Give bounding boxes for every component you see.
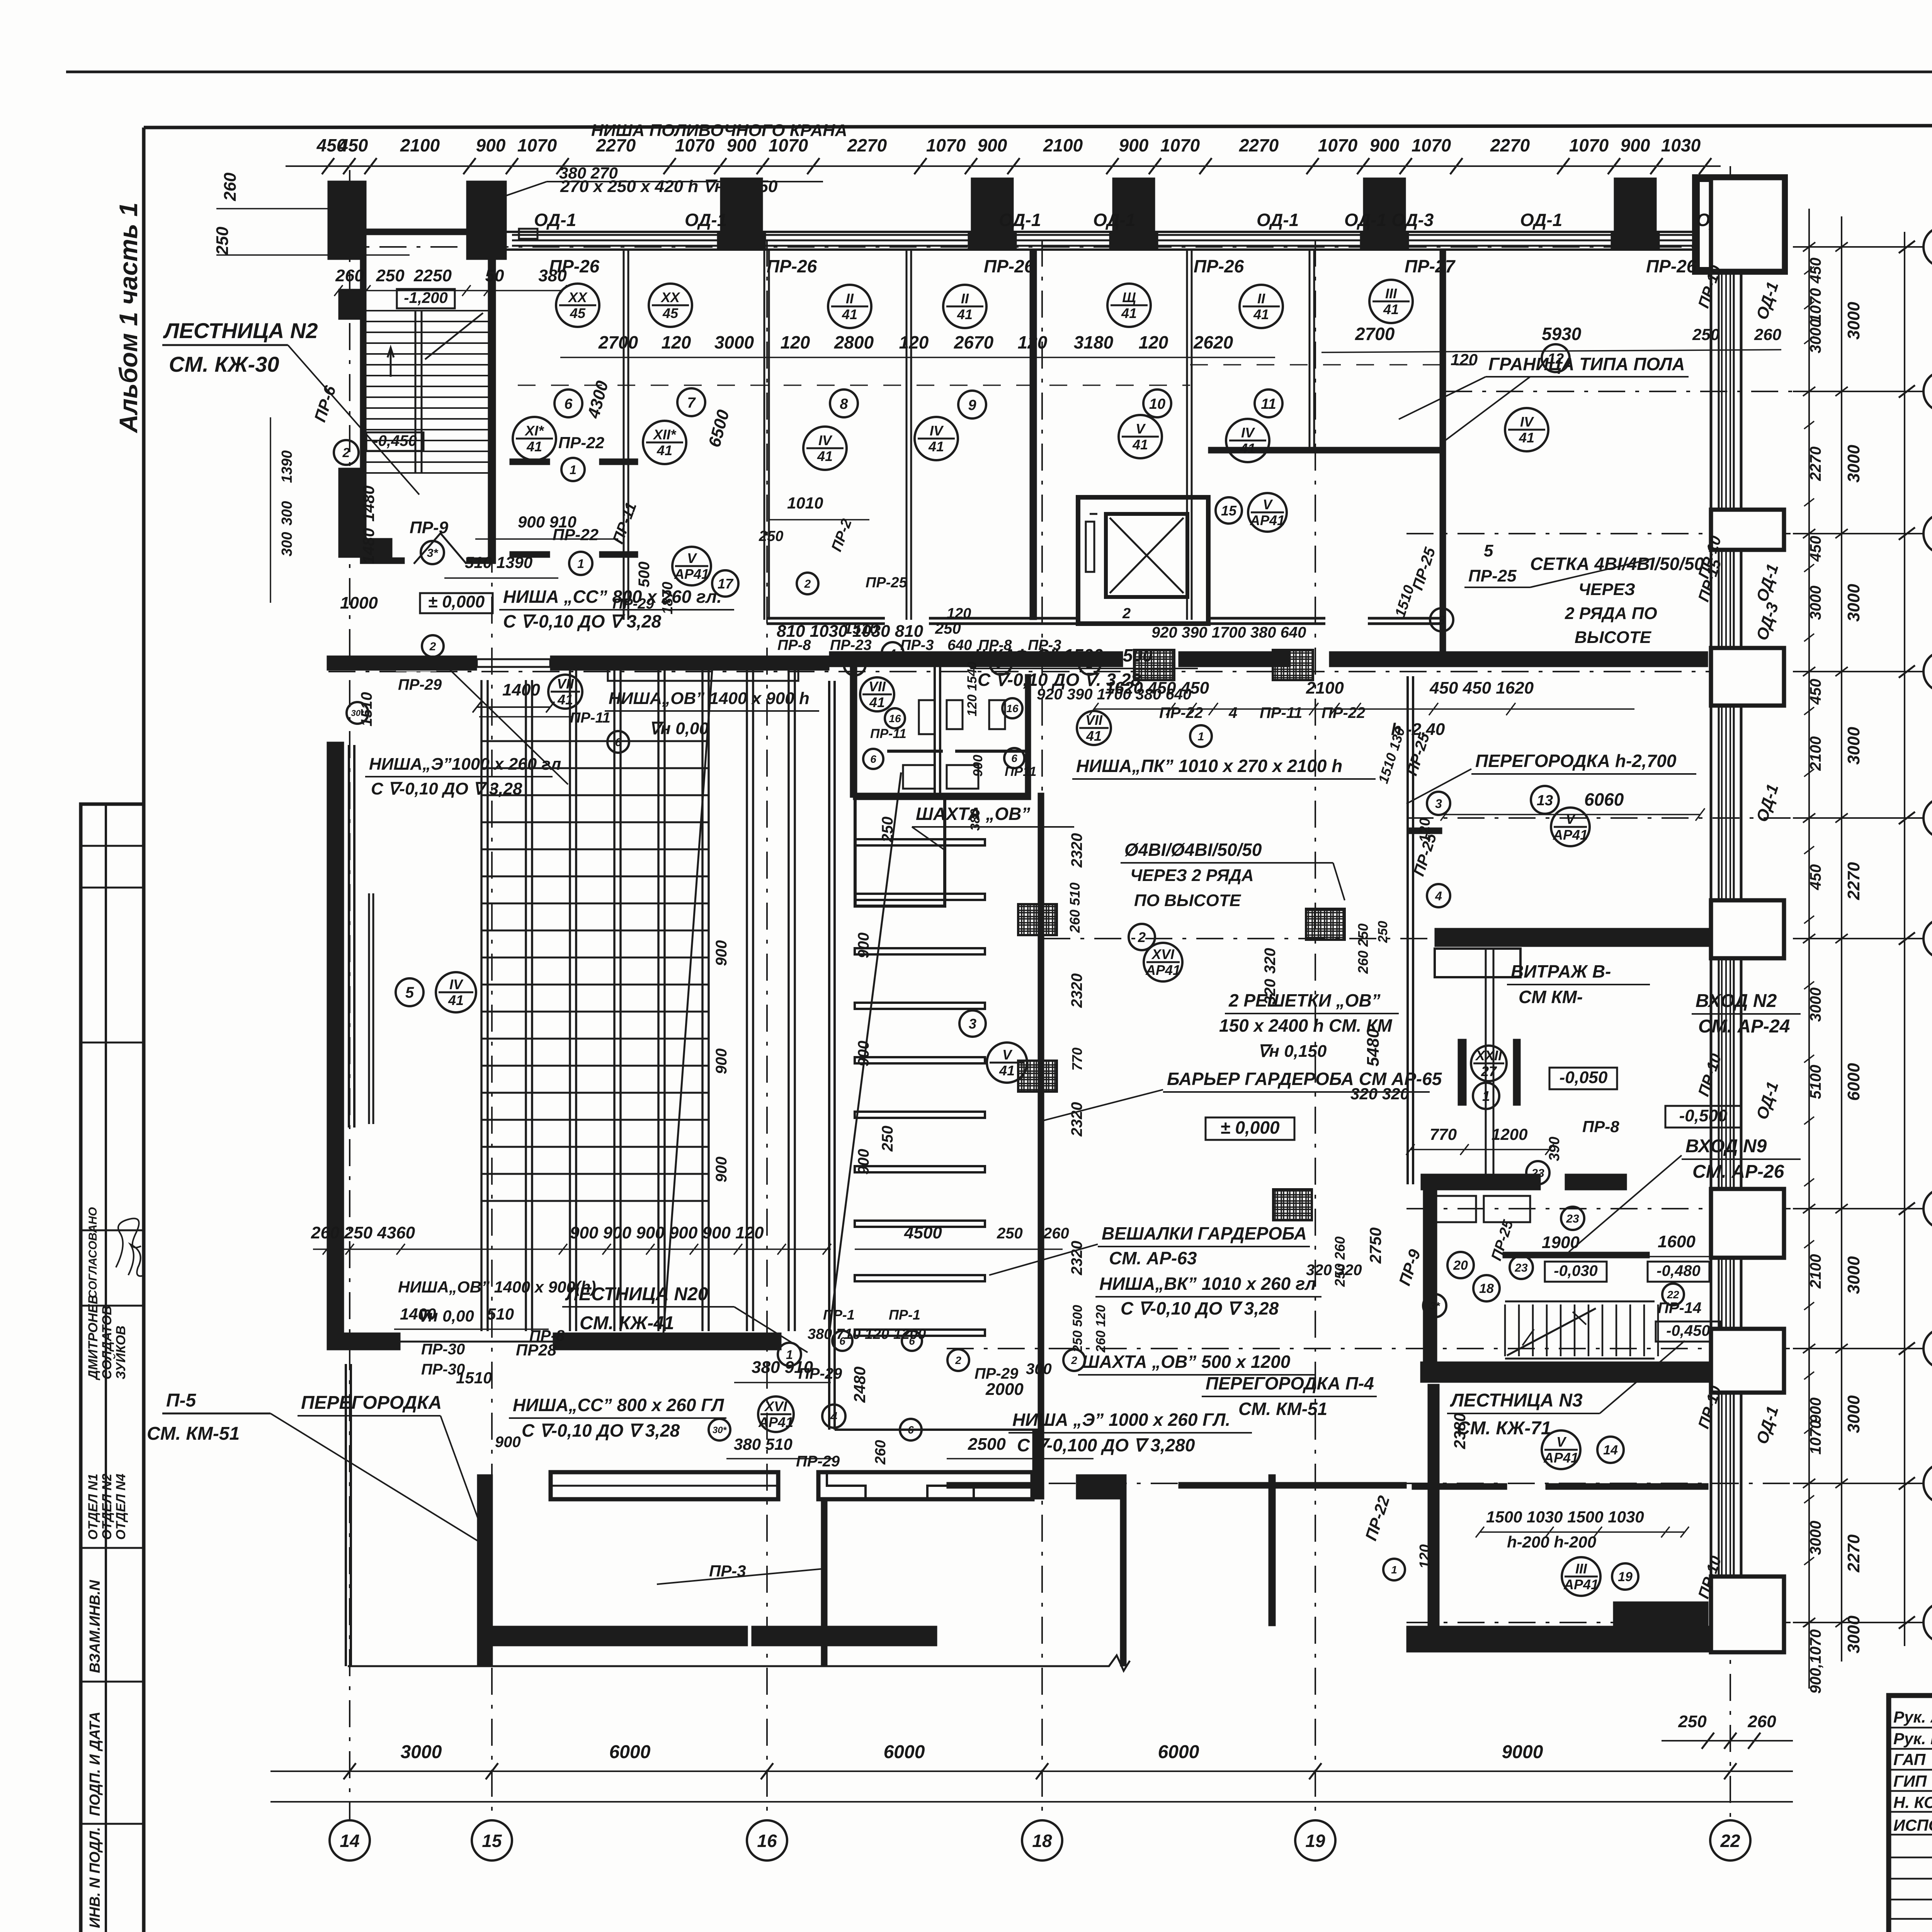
svg-text:ЧЕРЕЗ: ЧЕРЕЗ (1578, 580, 1635, 599)
svg-text:ОД-1: ОД-1 (685, 210, 727, 230)
svg-text:2000: 2000 (985, 1380, 1024, 1399)
svg-text:-0,480: -0,480 (1656, 1262, 1700, 1279)
svg-text:6: 6 (870, 753, 876, 765)
svg-text:XVI: XVI (1151, 946, 1175, 962)
room17 bubbles (672, 547, 711, 585)
svg-text:ПР-22: ПР-22 (1321, 704, 1365, 721)
svg-text:ПР28: ПР28 (516, 1341, 557, 1359)
room bubble 6 (554, 389, 582, 417)
lower wing bottom wall (477, 1626, 748, 1646)
svg-text:900: 900 (476, 135, 506, 155)
svg-text:1900: 1900 (1542, 1233, 1580, 1252)
north corner pier (1696, 178, 1784, 271)
svg-text:22: 22 (1667, 1289, 1679, 1301)
stair2 south wall w (360, 558, 405, 564)
svg-text:Н. КОНТР: Н. КОНТР (1893, 1793, 1932, 1811)
wardrobe rack 6 (855, 1112, 985, 1118)
svg-text:2: 2 (429, 640, 436, 653)
svg-text:V: V (1263, 497, 1273, 512)
svg-text:450 450 1620: 450 450 1620 (1429, 679, 1534, 697)
svg-text:41: 41 (817, 448, 833, 464)
svg-text:СМ. АР-26: СМ. АР-26 (1692, 1162, 1784, 1182)
svg-text:900: 900 (713, 1156, 730, 1182)
stair2 treads (366, 310, 488, 311)
svg-text:5930: 5930 (1542, 324, 1582, 344)
stair2 west outer blocks (338, 289, 360, 320)
svg-text:1070: 1070 (1569, 135, 1609, 155)
svg-text:ПР-3: ПР-3 (1028, 637, 1061, 653)
grid bubble Ч (1923, 798, 1932, 838)
svg-text:3: 3 (1435, 797, 1442, 811)
fixture (903, 765, 935, 789)
svg-text:ПР-8: ПР-8 (1582, 1117, 1619, 1136)
svg-text:1070: 1070 (1807, 1420, 1824, 1455)
svg-text:СМ. КЖ-30: СМ. КЖ-30 (169, 352, 279, 376)
north pier x=2513 (971, 178, 1014, 250)
grid axis x=4478 (1730, 1623, 1731, 1821)
svg-text:15: 15 (482, 1831, 502, 1851)
wardrobe rack 7 (855, 1166, 985, 1172)
lower wing left wall (345, 1364, 347, 1666)
svg-text:II: II (846, 291, 854, 306)
svg-text:7: 7 (687, 395, 696, 411)
fixture (947, 700, 963, 729)
svg-text:СМ. КЖ-41: СМ. КЖ-41 (580, 1313, 674, 1333)
rooms 14 19 (1542, 1430, 1580, 1469)
svg-text:2: 2 (1071, 1354, 1077, 1366)
grid axis x=2697 (1041, 240, 1043, 1821)
svg-text:1400: 1400 (502, 680, 540, 699)
svg-text:ПР-6: ПР-6 (311, 383, 339, 424)
svg-text:АР41: АР41 (1543, 1450, 1578, 1466)
stair2 cut diagonal (425, 313, 483, 359)
svg-text:ПР-9: ПР-9 (1395, 1247, 1424, 1288)
room bubble 12 (1542, 344, 1570, 372)
grid axis С stub (1793, 1622, 1923, 1623)
grid bubble Э (1923, 371, 1932, 412)
stair2 south wall e (466, 558, 496, 564)
fixture (947, 765, 978, 789)
svg-text:41: 41 (999, 1063, 1015, 1078)
seat grid squares (481, 740, 709, 742)
north pier x=1864 (720, 178, 763, 250)
svg-text:2250: 2250 (413, 266, 452, 285)
north wall band (507, 231, 1781, 233)
wardrobe rack 10 (855, 1330, 985, 1336)
svg-text:ПР-2: ПР-2 (828, 517, 855, 554)
svg-text:ОД-1: ОД-1 (999, 210, 1041, 230)
svg-text:260: 260 (335, 266, 364, 285)
svg-text:2270: 2270 (1490, 135, 1530, 155)
svg-text:3000: 3000 (1844, 1256, 1863, 1294)
svg-text:ПР-29: ПР-29 (398, 676, 442, 693)
drawing frame (144, 125, 1932, 128)
svg-text:300: 300 (279, 532, 295, 556)
grid bubble Ф (1923, 1189, 1932, 1229)
svg-text:ВЗАМ.ИНВ.N: ВЗАМ.ИНВ.N (87, 1580, 103, 1673)
svg-text:13: 13 (1537, 793, 1553, 809)
svg-text:ПЕРЕГОРОДКА h-2,700: ПЕРЕГОРОДКА h-2,700 (1475, 751, 1677, 771)
svg-text:120: 120 (1417, 818, 1433, 842)
svg-text:900: 900 (971, 755, 985, 777)
svg-text:IV: IV (1520, 414, 1534, 430)
svg-text:ПО ВЫСОТЕ: ПО ВЫСОТЕ (1134, 891, 1242, 910)
east window strip y=1423 (1721, 550, 1723, 648)
corridor south boundary (1032, 1430, 1044, 1499)
level box 0.000 top (420, 592, 493, 613)
svg-text:1000: 1000 (340, 594, 378, 612)
svg-text:900: 900 (713, 1048, 730, 1074)
grid axis Т stub (1793, 1483, 1923, 1484)
svg-text:II: II (1257, 291, 1265, 306)
auditorium bubbles (396, 978, 423, 1006)
svg-text:1070: 1070 (1160, 135, 1200, 155)
tambour walls (1421, 1174, 1541, 1190)
svg-text:1: 1 (1198, 730, 1204, 743)
grid bubble У (1923, 1328, 1932, 1369)
grid bubble Ц (1923, 918, 1932, 959)
svg-text:ПР-26: ПР-26 (767, 256, 817, 276)
bubble 2 left (334, 440, 359, 465)
svg-text:41: 41 (526, 439, 542, 454)
east window strip y=701 (1721, 271, 1723, 510)
svg-text:41: 41 (957, 306, 973, 322)
svg-text:1620 450 450: 1620 450 450 (1105, 679, 1209, 697)
svg-text:ПР-25: ПР-25 (1409, 545, 1439, 592)
svg-text:16: 16 (1006, 702, 1019, 714)
svg-text:120: 120 (1451, 350, 1478, 369)
svg-text:16: 16 (889, 713, 901, 724)
svg-text:9: 9 (968, 397, 976, 413)
svg-text:1390: 1390 (279, 450, 295, 483)
stairs 20 diagonal (829, 772, 901, 1333)
svg-text:2270: 2270 (1239, 135, 1279, 155)
svg-text:260 250 4360: 260 250 4360 (311, 1223, 415, 1242)
lower wing walls vertical (821, 1499, 827, 1666)
svg-text:2: 2 (955, 1354, 961, 1366)
svg-text:30*: 30* (713, 1425, 727, 1435)
svg-text:СМ. АР-63: СМ. АР-63 (1109, 1248, 1197, 1268)
svg-text:6060: 6060 (1584, 789, 1624, 810)
svg-text:23: 23 (1566, 1213, 1579, 1225)
svg-text:XXII: XXII (1475, 1048, 1502, 1063)
stairwell notch bottom wall (366, 229, 466, 235)
east pier y=3439 (1711, 1329, 1784, 1393)
svg-text:ОТДЕЛ N4: ОТДЕЛ N4 (114, 1474, 128, 1540)
svg-text:6000: 6000 (884, 1742, 925, 1762)
svg-text:СМ КМ-: СМ КМ- (1519, 987, 1583, 1007)
svg-text:ПЕРЕГОРОДКА: ПЕРЕГОРОДКА (301, 1393, 442, 1413)
wardrobe rack 8 (855, 1221, 985, 1227)
grid bubble Т (1923, 1463, 1932, 1503)
svg-text:СОГЛАСОВАНО: СОГЛАСОВАНО (87, 1207, 99, 1298)
fixture (989, 700, 1005, 729)
svg-text:VII: VII (869, 679, 886, 694)
svg-text:1070: 1070 (517, 135, 557, 155)
svg-text:4: 4 (830, 1410, 837, 1423)
svg-text:260 510: 260 510 (1067, 883, 1083, 933)
svg-text:260 120: 260 120 (1094, 1305, 1108, 1353)
bottom dimension chain (270, 1770, 1793, 1772)
svg-text:ПР-30: ПР-30 (421, 1361, 465, 1378)
auditorium west wall (327, 742, 344, 1350)
svg-text:15: 15 (1221, 503, 1237, 519)
svg-text:3000: 3000 (401, 1742, 442, 1762)
svg-text:30*: 30* (351, 708, 364, 718)
svg-text:IV: IV (1241, 425, 1255, 440)
svg-text:ПР-26: ПР-26 (984, 256, 1034, 276)
dashed floor-type boundary (518, 384, 1190, 386)
auditorium north wall east (550, 656, 829, 670)
svg-text:250: 250 (759, 528, 783, 544)
east pier y=2330 (1711, 900, 1784, 958)
svg-text:V: V (1556, 1434, 1567, 1450)
stair3 south wall (1420, 1362, 1720, 1383)
room bubble 9 (958, 391, 986, 418)
svg-text:± 0,000: ± 0,000 (428, 592, 485, 611)
svg-text:18: 18 (1479, 1281, 1494, 1296)
svg-text:III: III (1385, 286, 1397, 301)
svg-text:2270: 2270 (1807, 447, 1824, 481)
svg-text:50: 50 (485, 266, 504, 285)
svg-text:III: III (1575, 1561, 1587, 1577)
svg-text:ПР-26: ПР-26 (1646, 256, 1697, 276)
svg-text:ПР-30: ПР-30 (421, 1341, 465, 1358)
svg-text:920 390 1700 380 640: 920 390 1700 380 640 (1151, 624, 1306, 641)
svg-text:Ø4ВІ/Ø4ВІ/50/50: Ø4ВІ/Ø4ВІ/50/50 (1124, 840, 1262, 860)
svg-text:900 910: 900 910 (518, 513, 577, 531)
svg-text:3000: 3000 (1844, 727, 1863, 765)
svg-text:5: 5 (405, 984, 414, 1001)
svg-text:АР41: АР41 (1563, 1577, 1599, 1592)
svg-text:-0,450: -0,450 (1666, 1322, 1710, 1339)
svg-text:ОД-1: ОД-1 (1753, 279, 1782, 321)
svg-text:-0,450: -0,450 (373, 432, 417, 449)
wardrobe bubble 3 (959, 1010, 986, 1037)
svg-text:2: 2 (342, 446, 350, 460)
svg-text:ОД-1: ОД-1 (1753, 1079, 1782, 1121)
svg-text:6: 6 (839, 1335, 845, 1347)
level -1.200 (397, 289, 455, 308)
svg-text:ЛЕСТНИЦА N2: ЛЕСТНИЦА N2 (163, 318, 318, 343)
svg-text:510: 510 (487, 1305, 514, 1323)
svg-text:ПР-10: ПР-10 (1695, 1051, 1725, 1098)
svg-text:2800: 2800 (834, 332, 874, 352)
grid axis x=1985 (766, 240, 768, 1821)
svg-text:900: 900 (855, 932, 872, 958)
svg-text:150 x 2400 h СМ. КМ: 150 x 2400 h СМ. КМ (1219, 1015, 1393, 1036)
svg-text:2320: 2320 (1068, 1241, 1085, 1276)
top dimension chain (286, 165, 1721, 167)
svg-text:2700: 2700 (598, 332, 638, 352)
svg-text:ВЫСОТЕ: ВЫСОТЕ (1575, 628, 1652, 647)
svg-text:3*: 3* (427, 547, 439, 560)
svg-text:16: 16 (757, 1831, 777, 1851)
svg-text:Альбом 1 часть 1: Альбом 1 часть 1 (114, 202, 143, 434)
svg-text:± 0,000: ± 0,000 (1220, 1117, 1280, 1138)
auditorium seating: vertical rows (480, 680, 483, 1331)
svg-text:ПР-11: ПР-11 (870, 726, 906, 741)
svg-text:2100: 2100 (1807, 736, 1824, 771)
svg-text:450: 450 (1807, 864, 1824, 891)
svg-text:2100: 2100 (1807, 1254, 1824, 1289)
svg-text:ПР-9: ПР-9 (410, 518, 449, 537)
svg-text:С ∇-0,10 ДО ∇ 3,28: С ∇-0,10 ДО ∇ 3,28 (522, 1420, 680, 1440)
svg-text:ПЕРЕГОРОДКА П-4: ПЕРЕГОРОДКА П-4 (1206, 1373, 1374, 1393)
svg-text:300: 300 (279, 501, 295, 526)
svg-text:900 900 900 900 900 120: 900 900 900 900 900 120 (570, 1223, 764, 1242)
svg-text:250: 250 (376, 266, 405, 285)
svg-text:380 510: 380 510 (734, 1435, 793, 1453)
svg-text:6000: 6000 (1158, 1742, 1199, 1762)
vent niche above seats (608, 668, 798, 681)
svg-text:ПР-22: ПР-22 (1362, 1493, 1393, 1543)
svg-text:3000: 3000 (1807, 988, 1824, 1022)
svg-text:1: 1 (1391, 1564, 1397, 1576)
svg-text:ПР-26: ПР-26 (1194, 256, 1244, 276)
svg-text:41: 41 (1086, 728, 1102, 744)
svg-text:СОЛДАТОВ: СОЛДАТОВ (100, 1306, 114, 1379)
svg-text:900: 900 (978, 135, 1007, 155)
svg-text:250 500: 250 500 (1070, 1305, 1085, 1353)
svg-text:ПР-22: ПР-22 (558, 434, 604, 452)
grid axis Ш stub (1793, 671, 1923, 672)
svg-text:5: 5 (1484, 541, 1493, 560)
svg-text:11: 11 (1261, 396, 1276, 412)
grid bubble 19 (1295, 1820, 1335, 1861)
svg-text:1510: 1510 (1392, 583, 1418, 619)
room bubble 11 (1255, 389, 1282, 417)
svg-text:НИША ПОЛИВОЧНОГО КРАНА: НИША ПОЛИВОЧНОГО КРАНА (591, 121, 847, 140)
svg-text:ДМИТРОНЕВ: ДМИТРОНЕВ (86, 1295, 100, 1381)
auditorium south wall (327, 1333, 400, 1350)
svg-text:2620: 2620 (1193, 332, 1233, 352)
svg-text:41: 41 (842, 306, 857, 322)
svg-text:9000: 9000 (1502, 1742, 1543, 1762)
svg-text:ШАХТА „ОВ”: ШАХТА „ОВ” (916, 804, 1030, 824)
grid axis x=1273 (491, 240, 493, 1821)
wardrobe rack 9 (855, 1275, 985, 1281)
svg-text:2480: 2480 (850, 1367, 869, 1403)
svg-text:14: 14 (340, 1831, 359, 1851)
svg-text:12: 12 (1548, 351, 1564, 367)
svg-text:900: 900 (1119, 135, 1149, 155)
svg-text:ОТДЕЛ N1: ОТДЕЛ N1 (86, 1474, 100, 1540)
svg-text:3000: 3000 (1844, 302, 1863, 340)
svg-text:250: 250 (1678, 1712, 1707, 1731)
elevator / store room 15 (1078, 497, 1208, 624)
grid axis x=905 (349, 170, 350, 1821)
svg-text:ГИП: ГИП (1893, 1772, 1927, 1790)
svg-text:ПР11: ПР11 (1005, 764, 1036, 779)
svg-text:120: 120 (1417, 1544, 1433, 1569)
svg-text:СМ. КМ-51: СМ. КМ-51 (1238, 1399, 1327, 1419)
svg-text:41: 41 (928, 439, 944, 454)
wardrobe rack 3 (855, 948, 985, 954)
svg-text:2100: 2100 (400, 135, 440, 155)
svg-text:XII*: XII* (653, 427, 677, 442)
svg-text:41: 41 (1253, 306, 1269, 322)
svg-text:ЧЕРЕЗ 2 РЯДА: ЧЕРЕЗ 2 РЯДА (1130, 866, 1254, 885)
svg-text:3000: 3000 (1844, 584, 1863, 622)
partition west of room 13 (1406, 676, 1409, 1184)
svg-text:2700: 2700 (1355, 324, 1395, 344)
svg-text:41: 41 (1383, 301, 1399, 317)
svg-text:300: 300 (1026, 1361, 1052, 1378)
svg-text:ОД-1: ОД-1 (534, 210, 576, 230)
svg-text:ОД-1 ОД-3: ОД-1 ОД-3 (1344, 210, 1434, 230)
grid bubble 14 (330, 1820, 370, 1861)
tambour door swing (414, 533, 466, 564)
svg-text:IV: IV (930, 423, 944, 439)
grid bubble Щ (1923, 514, 1932, 554)
fixture (919, 700, 935, 734)
right wing inner east wall detail (1613, 1602, 1708, 1626)
wall axis Ц room 13 (1435, 928, 1709, 947)
svg-text:900: 900 (1370, 135, 1400, 155)
grid axis x=4478 (1730, 166, 1731, 286)
room bubble 10 (1143, 389, 1171, 417)
svg-text:-0,050: -0,050 (1560, 1068, 1608, 1087)
svg-text:260: 260 (1754, 325, 1781, 344)
svg-text:2: 2 (1138, 929, 1146, 945)
svg-text:Щ: Щ (1122, 289, 1136, 305)
svg-text:2 РЕШЕТКИ „ОВ”: 2 РЕШЕТКИ „ОВ” (1228, 990, 1381, 1010)
svg-text:ЗУЙКОВ: ЗУЙКОВ (113, 1326, 128, 1380)
svg-text:ПР-3: ПР-3 (900, 637, 934, 653)
corridor columns hatched (1134, 650, 1174, 680)
svg-text:1600: 1600 (1658, 1232, 1696, 1251)
svg-text:380 710 120 1200: 380 710 120 1200 (808, 1326, 926, 1342)
svg-text:120 1540: 120 1540 (965, 662, 980, 716)
svg-text:XX: XX (660, 289, 680, 305)
svg-text:∇н 0,150: ∇н 0,150 (1258, 1042, 1327, 1061)
sanitary block (850, 653, 857, 798)
svg-text:Рук. КБ1: Рук. КБ1 (1893, 1730, 1932, 1748)
section break line (348, 1655, 1130, 1671)
svg-text:С ∇-0,10 ДО ∇ 3,28: С ∇-0,10 ДО ∇ 3,28 (1121, 1298, 1279, 1318)
svg-text:ПР-23: ПР-23 (830, 637, 872, 653)
svg-text:h-200 h-200: h-200 h-200 (1507, 1533, 1596, 1551)
svg-text:ПР-11: ПР-11 (609, 500, 640, 546)
svg-text:320: 320 (1262, 948, 1279, 974)
svg-text:1510 130: 1510 130 (1375, 725, 1408, 785)
svg-text:41: 41 (1132, 437, 1148, 452)
partition x=3078 (1186, 250, 1188, 620)
svg-text:2500: 2500 (968, 1435, 1006, 1454)
grid bubble 22 (1710, 1820, 1750, 1861)
svg-text:ОД-1: ОД-1 (1520, 210, 1562, 230)
svg-text:1400: 1400 (400, 1305, 436, 1323)
svg-text:ОД-1: ОД-1 (1093, 210, 1135, 230)
east pier y=4080 (1711, 1577, 1784, 1652)
svg-text:ПР-8: ПР-8 (978, 637, 1012, 653)
svg-text:IV: IV (449, 976, 464, 992)
svg-text:6000: 6000 (1844, 1063, 1863, 1101)
svg-text:П-5: П-5 (166, 1390, 197, 1411)
svg-text:45: 45 (662, 305, 679, 321)
svg-text:900: 900 (1807, 1398, 1824, 1423)
wall between rooms 11/12 (1440, 250, 1446, 653)
svg-text:ПР-29: ПР-29 (798, 1365, 842, 1382)
svg-text:260: 260 (1747, 1712, 1776, 1731)
svg-text:АР41: АР41 (1553, 827, 1588, 843)
svg-text:НИША „СС” 800 x 260 гл.: НИША „СС” 800 x 260 гл. (503, 587, 722, 607)
svg-text:1: 1 (577, 557, 584, 571)
svg-text:900: 900 (495, 1434, 521, 1451)
svg-text:ПР-14: ПР-14 (1658, 1299, 1701, 1316)
grid bubble 15 (472, 1820, 512, 1861)
